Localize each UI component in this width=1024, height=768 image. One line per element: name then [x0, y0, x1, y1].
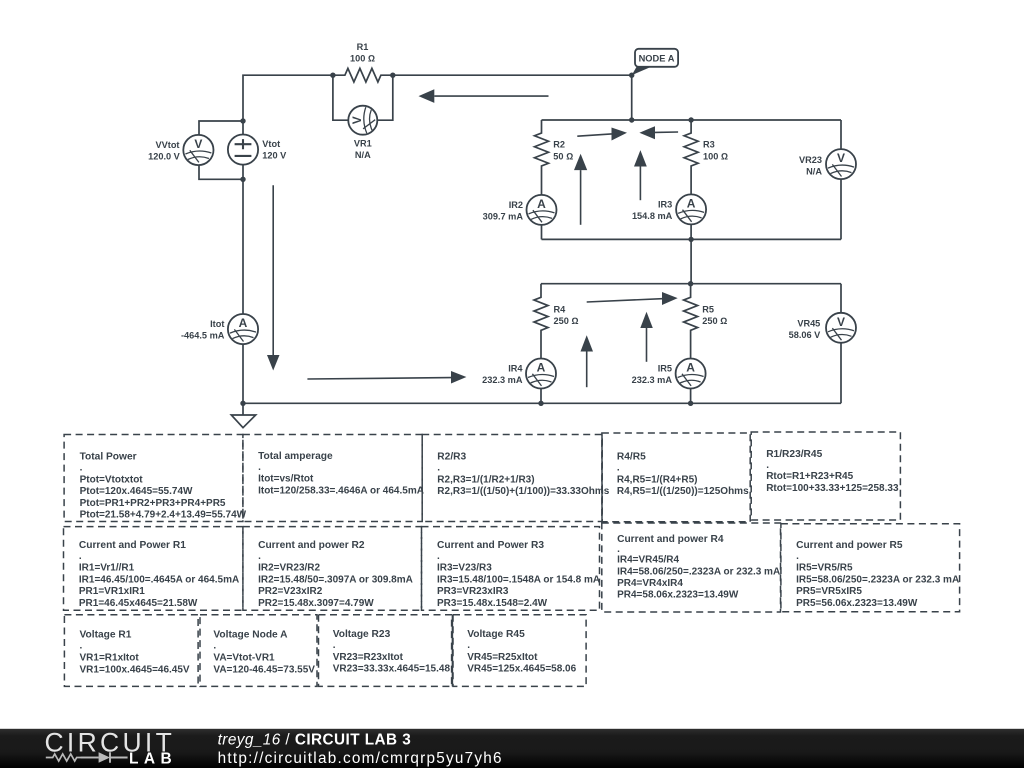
svg-text:R4: R4	[554, 304, 567, 314]
svg-text:VR23=R23xItot: VR23=R23xItot	[333, 652, 404, 663]
annotation box Current and Power R3	[422, 527, 601, 611]
svg-text:100 Ω: 100 Ω	[703, 152, 728, 162]
svg-text:PR2=V23xIR2: PR2=V23xIR2	[258, 586, 323, 597]
voltmeter VVtot	[183, 135, 213, 165]
svg-text:.: .	[467, 640, 470, 651]
annotation box Voltage R45	[453, 615, 586, 687]
node A label balloon	[632, 49, 678, 75]
svg-text:R1/R23/R45: R1/R23/R45	[766, 449, 822, 460]
svg-text:IR5=VR5/R5: IR5=VR5/R5	[796, 563, 853, 574]
resistor R3	[684, 120, 698, 194]
svg-text:IR2: IR2	[509, 200, 523, 210]
svg-text:Total Power: Total Power	[80, 452, 137, 463]
wire Itot ammeter to ground node	[242, 344, 244, 403]
node junction dot bottom of source	[240, 177, 245, 182]
arrow left into node (R2/R3)	[655, 131, 678, 133]
node dot R1 right	[390, 73, 395, 78]
svg-text:IR3: IR3	[658, 199, 672, 209]
svg-text:VR45: VR45	[797, 319, 820, 329]
svg-text:R1: R1	[357, 42, 369, 52]
svg-text:Current and power R5: Current and power R5	[796, 540, 903, 551]
svg-text:VR23: VR23	[799, 155, 822, 165]
wire VR1 bracket	[333, 75, 393, 120]
arrow right (bottom annotation)	[307, 378, 451, 379]
svg-text:PR1=VR1xIR1: PR1=VR1xIR1	[79, 586, 145, 597]
wire IR2 to bottom rail	[541, 225, 543, 240]
svg-text:IR4: IR4	[508, 364, 523, 374]
svg-text:treyg_16 / CIRCUIT LAB 3: treyg_16 / CIRCUIT LAB 3	[218, 732, 412, 749]
junction dot IR5 bottom	[688, 401, 693, 406]
arrow up (under node, R2/R3)	[639, 167, 641, 201]
svg-text:VA=120-46.45=73.55V: VA=120-46.45=73.55V	[213, 664, 315, 675]
node dot R1 left	[330, 73, 335, 78]
ammeter IR4	[526, 359, 556, 389]
ammeter IR5	[676, 359, 706, 389]
svg-text:Current and power R4: Current and power R4	[617, 534, 724, 545]
svg-text:V: V	[194, 137, 202, 151]
svg-text:IR5: IR5	[658, 364, 672, 374]
svg-text:.: .	[80, 640, 83, 651]
svg-text:VR45=125x.4645=58.06: VR45=125x.4645=58.06	[467, 663, 576, 674]
annotation box Current and power R5	[781, 524, 960, 612]
svg-text:Ptot=21.58+4.79+2.4+13.49=55.7: Ptot=21.58+4.79+2.4+13.49=55.74W	[80, 510, 247, 521]
resistor R2	[535, 120, 549, 195]
svg-text:VR45=R25xItot: VR45=R25xItot	[467, 652, 538, 663]
arrow up (under R2)	[580, 170, 582, 225]
svg-text:Ptot=Vtotxtot: Ptot=Vtotxtot	[80, 474, 144, 485]
svg-text:IR3=V23/R3: IR3=V23/R3	[437, 563, 492, 574]
svg-text:.: .	[766, 460, 769, 471]
footer bar	[0, 729, 1024, 768]
solid divider row1 between R2/R3 and R4/R5 boxes	[601, 435, 603, 522]
svg-text:50 Ω: 50 Ω	[553, 152, 573, 162]
resistor R5	[684, 284, 698, 359]
svg-text:250 Ω: 250 Ω	[702, 316, 727, 326]
svg-text:VR23=33.33x.4645=15.48: VR23=33.33x.4645=15.48	[333, 663, 451, 674]
wire source top stub	[243, 75, 333, 134]
junction dot R3 top	[688, 117, 693, 122]
solid divider row3 between Voltage R23 and Voltage R45 boxes	[451, 615, 453, 687]
annotation box Voltage R23	[319, 615, 452, 687]
svg-text:Rtot=100+33.33+125=258.33: Rtot=100+33.33+125=258.33	[766, 483, 899, 494]
svg-text:-464.5 mA: -464.5 mA	[181, 331, 225, 341]
svg-text:.: .	[79, 551, 82, 562]
wire IR4 to bottom rail	[540, 389, 542, 404]
annotation box Voltage Node A	[200, 615, 317, 687]
svg-text:.: .	[437, 551, 440, 562]
svg-text:58.06 V: 58.06 V	[789, 330, 822, 340]
svg-text:.: .	[213, 640, 216, 651]
svg-text:PR2=15.48x.3097=4.79W: PR2=15.48x.3097=4.79W	[258, 598, 374, 609]
svg-text:A: A	[537, 361, 546, 375]
svg-text:PR3=15.48x.1548=2.4W: PR3=15.48x.1548=2.4W	[437, 598, 548, 609]
svg-text:PR1=46.45x4645=21.58W: PR1=46.45x4645=21.58W	[79, 598, 198, 609]
wire IR3 to bottom rail	[690, 224, 692, 239]
svg-text:N/A: N/A	[355, 150, 371, 160]
svg-text:Total amperage: Total amperage	[258, 451, 333, 462]
arrow up (under R5 node)	[646, 328, 648, 362]
bottom rail	[243, 402, 841, 404]
voltage source Vtot	[228, 135, 258, 165]
wire top-left bracket lower	[199, 165, 243, 179]
svg-text:R4,R5=1/(R4+R5): R4,R5=1/(R4+R5)	[617, 474, 698, 485]
annotation box Total Power	[64, 435, 247, 522]
logo resistor + diode symbol	[46, 754, 99, 761]
svg-text:Current and Power R3: Current and Power R3	[437, 540, 544, 551]
svg-text:IR2=VR23/R2: IR2=VR23/R2	[258, 563, 320, 574]
svg-text:232.3 mA: 232.3 mA	[482, 375, 523, 385]
svg-text:PR4=VR4xIR4: PR4=VR4xIR4	[617, 578, 683, 589]
svg-text:NODE A: NODE A	[639, 54, 675, 64]
svg-text:A: A	[239, 316, 248, 330]
svg-text:Ptot=PR1+PR2+PR3+PR4+PR5: Ptot=PR1+PR2+PR3+PR4+PR5	[80, 498, 226, 509]
svg-text:Rtot=R1+R23+R45: Rtot=R1+R23+R45	[766, 471, 853, 482]
svg-text:IR2=15.48/50=.3097A or 309.8mA: IR2=15.48/50=.3097A or 309.8mA	[258, 574, 413, 585]
voltmeter VR23	[826, 149, 856, 179]
svg-text:100 Ω: 100 Ω	[350, 54, 375, 64]
svg-text:VR1: VR1	[354, 139, 372, 149]
svg-text:Voltage R1: Voltage R1	[80, 629, 132, 640]
arrow up (under R4)	[586, 352, 588, 388]
svg-text:Ptot=120x.4645=55.74W: Ptot=120x.4645=55.74W	[80, 486, 193, 497]
svg-text:V: V	[837, 315, 845, 329]
svg-text:120 V: 120 V	[262, 150, 287, 160]
svg-text:VVtot: VVtot	[156, 140, 180, 150]
voltmeter VR23 branch wires	[840, 120, 842, 239]
svg-text:Current and Power R1: Current and Power R1	[79, 540, 186, 551]
svg-text:V: V	[837, 151, 845, 165]
voltmeter VR1 (rotated)	[348, 106, 377, 135]
svg-text:.: .	[617, 463, 620, 474]
svg-text:VA=Vtot-VR1: VA=Vtot-VR1	[213, 653, 275, 664]
junction dot R5 top	[688, 281, 693, 286]
wire IR5 to bottom rail	[690, 389, 692, 404]
annotation box Current and Power R1	[64, 527, 243, 611]
svg-text:IR1=46.45/100=.4645A or 464.5m: IR1=46.45/100=.4645A or 464.5mA	[79, 574, 239, 585]
top rail R2/R3 section	[542, 119, 842, 121]
svg-text:A: A	[686, 361, 695, 375]
svg-text:R2,R3=1/((1/50)+(1/100))=33.33: R2,R3=1/((1/50)+(1/100))=33.33Ohms	[437, 486, 609, 497]
annotation box Current and power R4	[602, 523, 781, 612]
svg-text:IR3=15.48/100=.1548A or 154.8: IR3=15.48/100=.1548A or 154.8 mA	[437, 574, 600, 585]
svg-text:.: .	[333, 640, 336, 651]
svg-text:PR4=58.06x.2323=13.49W: PR4=58.06x.2323=13.49W	[617, 590, 739, 601]
svg-text:IR5=58.06/250=.2323A or 232.3: IR5=58.06/250=.2323A or 232.3 mA	[796, 574, 959, 585]
annotation box Current and power R2	[243, 527, 422, 611]
ammeter IR2	[527, 195, 557, 225]
resistor R4	[534, 284, 548, 359]
arrow right into node (R2/R3)	[577, 134, 611, 136]
svg-text:Voltage R45: Voltage R45	[467, 629, 525, 640]
junction dot R3 bottom	[688, 237, 693, 242]
node junction dot top of source	[240, 118, 245, 123]
annotation box R2/R3	[422, 435, 610, 522]
svg-text:R4/R5: R4/R5	[617, 452, 646, 463]
junction dot IR4 bottom	[538, 401, 543, 406]
ground	[242, 403, 244, 415]
svg-text:http://circuitlab.com/cmrqrp5y: http://circuitlab.com/cmrqrp5yu7yh6	[218, 750, 503, 767]
svg-text:Vtot: Vtot	[262, 139, 280, 149]
junction dot node A on rail	[629, 117, 634, 122]
svg-text:R2,R3=1/(1/R2+1/R3): R2,R3=1/(1/R2+1/R3)	[437, 474, 534, 485]
svg-text:232.3 mA: 232.3 mA	[632, 375, 673, 385]
wire top-left bracket upper (VVtot to Vtot)	[199, 121, 243, 135]
svg-text:VR1=R1xItot: VR1=R1xItot	[80, 653, 140, 664]
bottom rail R2/R3 section	[542, 238, 842, 240]
svg-text:120.0 V: 120.0 V	[148, 151, 181, 161]
svg-text:R4,R5=1/((1/250))=125Ohms: R4,R5=1/((1/250))=125Ohms	[617, 486, 749, 497]
ammeter Itot	[228, 314, 258, 344]
arrow left (top, annotation)	[434, 95, 548, 97]
junction dot ground node	[240, 401, 245, 406]
svg-text:R2/R3: R2/R3	[437, 452, 466, 463]
svg-text:154.8 mA: 154.8 mA	[632, 211, 673, 221]
annotation box Total amperage	[243, 435, 424, 522]
voltmeter VR45 branch wires	[840, 284, 842, 404]
svg-text:PR5=56.06x.2323=13.49W: PR5=56.06x.2323=13.49W	[796, 598, 918, 609]
svg-text:Voltage Node A: Voltage Node A	[213, 629, 288, 640]
svg-text:.: .	[258, 551, 261, 562]
svg-text:R2: R2	[553, 139, 565, 149]
ammeter IR3	[676, 194, 706, 224]
wire between sections	[690, 239, 692, 283]
svg-text:R3: R3	[703, 139, 715, 149]
svg-text:.: .	[617, 544, 620, 555]
svg-text:Voltage R23: Voltage R23	[333, 629, 391, 640]
wire source bottom to Itot ammeter	[242, 165, 244, 314]
svg-text:Itot=120/258.33=.4646A or 464.: Itot=120/258.33=.4646A or 464.5mA	[258, 485, 424, 496]
svg-text:.: .	[258, 462, 261, 473]
wire node A down	[631, 75, 633, 120]
svg-text:.: .	[437, 463, 440, 474]
svg-text:V: V	[350, 116, 364, 124]
resistor R1	[333, 68, 393, 82]
annotation box R4/R5	[602, 433, 750, 522]
svg-text:A: A	[687, 196, 696, 210]
svg-text:A: A	[537, 197, 546, 211]
svg-text:IR4=VR45/R4: IR4=VR45/R4	[617, 555, 679, 566]
svg-text:Itot: Itot	[210, 319, 224, 329]
svg-text:N/A: N/A	[806, 166, 822, 176]
svg-text:PR3=VR23xIR3: PR3=VR23xIR3	[437, 586, 509, 597]
svg-text:IR4=58.06/250=.2323A or 232.3: IR4=58.06/250=.2323A or 232.3 mA	[617, 566, 780, 577]
annotation box R1/R23/R45	[751, 432, 900, 520]
svg-text:250 Ω: 250 Ω	[554, 316, 579, 326]
svg-text:VR1=100x.4645=46.45V: VR1=100x.4645=46.45V	[80, 664, 190, 675]
arrow down (left annotation)	[272, 185, 274, 355]
svg-text:309.7 mA: 309.7 mA	[483, 211, 524, 221]
svg-text:.: .	[796, 551, 799, 562]
voltmeter VR45	[826, 313, 856, 343]
svg-text:Current and power R2: Current and power R2	[258, 540, 365, 551]
top rail R4/R5 section	[541, 283, 841, 285]
node A dot	[629, 73, 634, 78]
svg-text:PR5=VR5xIR5: PR5=VR5xIR5	[796, 586, 862, 597]
arrow right (R4/R5)	[587, 299, 662, 302]
wire R1 to node A	[393, 74, 632, 76]
svg-text:.: .	[80, 463, 83, 474]
svg-text:Itot=vs/Rtot: Itot=vs/Rtot	[258, 474, 314, 485]
svg-text:R5: R5	[702, 304, 714, 314]
svg-text:IR1=Vr1//R1: IR1=Vr1//R1	[79, 563, 135, 574]
annotation box Voltage R1	[64, 615, 198, 687]
svg-text:LAB: LAB	[129, 751, 177, 768]
